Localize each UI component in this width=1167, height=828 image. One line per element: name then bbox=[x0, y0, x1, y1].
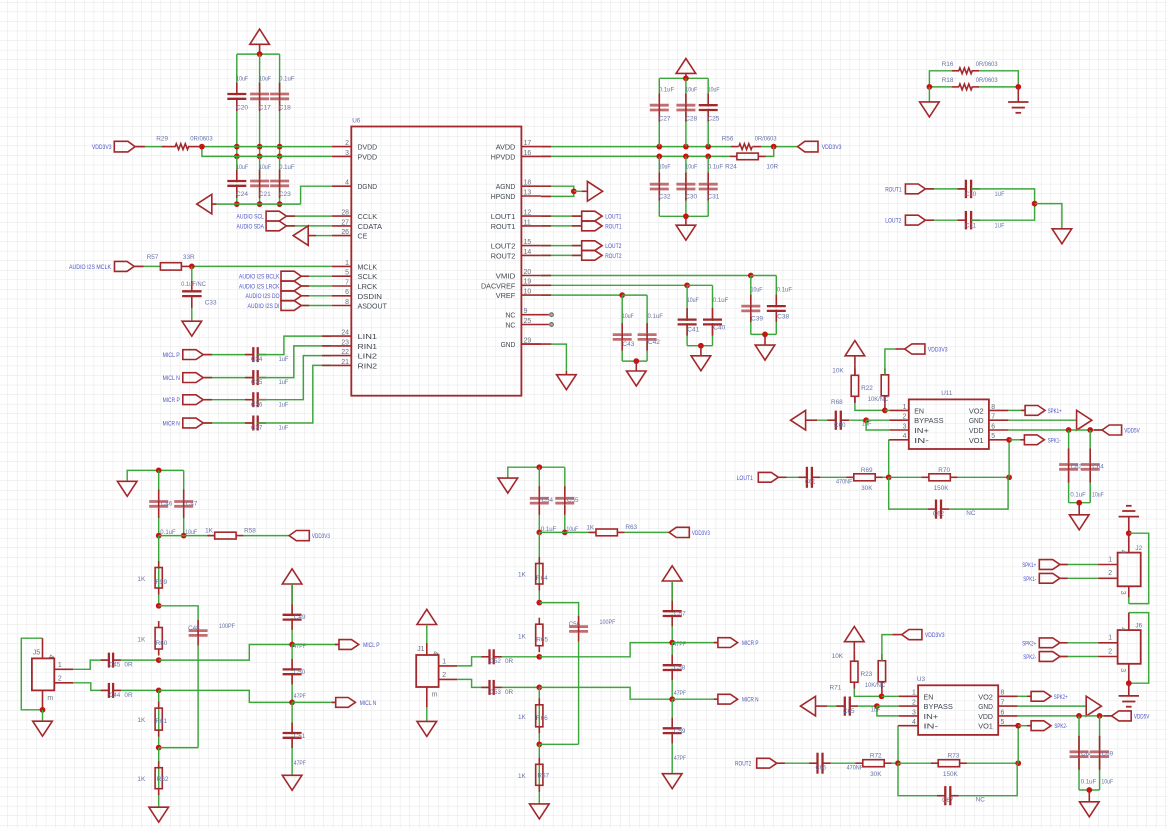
capacitor C58 bbox=[663, 655, 686, 681]
op-amp U11 bbox=[909, 390, 989, 449]
svg-text:4: 4 bbox=[1119, 627, 1126, 631]
svg-text:CE: CE bbox=[358, 232, 368, 241]
svg-text:1UF: 1UF bbox=[995, 191, 1005, 198]
capacitor C23 bbox=[270, 164, 294, 198]
resistor R65 bbox=[518, 618, 548, 653]
svg-text:MICL N: MICL N bbox=[163, 375, 181, 382]
svg-text:MICR N: MICR N bbox=[742, 697, 759, 704]
wire bbox=[236, 156, 238, 204]
svg-text:4: 4 bbox=[903, 433, 907, 440]
svg-text:6: 6 bbox=[1001, 709, 1005, 716]
node junction bbox=[156, 657, 162, 663]
resistor R69 bbox=[847, 467, 883, 492]
wire bbox=[764, 334, 766, 345]
pin 3 IN+ bbox=[889, 423, 929, 435]
svg-text:1: 1 bbox=[1108, 556, 1112, 563]
svg-text:NC: NC bbox=[506, 311, 516, 320]
svg-text:0.1uF: 0.1uF bbox=[777, 287, 792, 294]
svg-text:LIN1: LIN1 bbox=[358, 332, 378, 341]
svg-text:ROUT1: ROUT1 bbox=[491, 222, 516, 231]
node junction bbox=[748, 273, 754, 279]
capacitor C18 bbox=[270, 76, 294, 112]
capacitor C56 bbox=[569, 616, 616, 642]
wire bbox=[1018, 695, 1031, 697]
svg-text:LOUT1: LOUT1 bbox=[737, 475, 754, 482]
svg-text:0R/0603: 0R/0603 bbox=[190, 135, 213, 142]
capacitor C35 bbox=[245, 370, 288, 386]
svg-text:R23: R23 bbox=[861, 671, 873, 678]
svg-text:DVDD: DVDD bbox=[358, 143, 378, 152]
svg-text:R16: R16 bbox=[942, 61, 954, 68]
node junction bbox=[874, 703, 880, 709]
pin 1 bbox=[1098, 556, 1118, 564]
wire bbox=[1060, 577, 1098, 579]
pin 1 bbox=[54, 662, 73, 669]
pin 3 IN+ bbox=[899, 709, 939, 721]
wire bbox=[541, 215, 582, 217]
capacitor C49 bbox=[283, 604, 306, 630]
svg-text:MICR P: MICR P bbox=[163, 397, 180, 404]
power VCC symbol bbox=[845, 627, 865, 651]
wire bbox=[1069, 502, 1091, 504]
wire bbox=[897, 725, 900, 727]
svg-text:9: 9 bbox=[524, 308, 528, 315]
net flag VDD3V3 bbox=[905, 344, 948, 354]
net flag AUDIO_I2S_DO bbox=[246, 291, 302, 301]
svg-text:R60: R60 bbox=[156, 640, 168, 647]
svg-text:C10: C10 bbox=[965, 191, 977, 198]
power VCC symbol bbox=[417, 609, 437, 624]
capacitor C54 bbox=[530, 486, 557, 533]
node junction bbox=[669, 640, 675, 646]
resistor R61 bbox=[137, 702, 167, 737]
value label 47PF bbox=[294, 643, 306, 650]
svg-text:NC: NC bbox=[976, 797, 986, 804]
svg-text:C61: C61 bbox=[805, 479, 816, 486]
svg-text:10uF: 10uF bbox=[236, 76, 248, 83]
capacitor C50 bbox=[283, 659, 306, 685]
svg-text:1K: 1K bbox=[586, 524, 595, 531]
svg-text:GND: GND bbox=[978, 702, 993, 711]
svg-text:0.1uF: 0.1uF bbox=[279, 164, 294, 171]
net flag AUDIO_I2S_BCLK bbox=[239, 271, 301, 281]
ground bbox=[755, 345, 775, 360]
svg-text:12: 12 bbox=[524, 210, 532, 217]
svg-text:4: 4 bbox=[912, 719, 916, 726]
svg-text:0.1uF: 0.1uF bbox=[713, 297, 728, 304]
svg-text:J2: J2 bbox=[1135, 545, 1142, 552]
svg-text:VO2: VO2 bbox=[978, 692, 993, 701]
ground bbox=[676, 225, 696, 240]
node junction bbox=[536, 530, 567, 536]
svg-text:GND: GND bbox=[969, 416, 984, 425]
svg-text:10uF: 10uF bbox=[259, 76, 271, 83]
svg-text:47PF: 47PF bbox=[674, 755, 686, 762]
svg-text:47PF: 47PF bbox=[294, 760, 306, 767]
earth ground bbox=[1119, 506, 1139, 517]
svg-text:AUDIO SDA: AUDIO SDA bbox=[237, 223, 265, 230]
net flag MICL P bbox=[339, 640, 380, 650]
svg-text:5: 5 bbox=[1001, 719, 1005, 726]
power VCC symbol bbox=[662, 566, 682, 601]
capacitor C28 bbox=[676, 86, 697, 122]
net flag ROUT2 bbox=[582, 251, 622, 261]
wire bbox=[877, 705, 899, 707]
wire bbox=[502, 656, 539, 658]
svg-text:VREF: VREF bbox=[496, 291, 516, 300]
svg-text:LOUT1: LOUT1 bbox=[605, 214, 622, 221]
wire bbox=[1078, 716, 1080, 790]
wire bbox=[258, 356, 332, 400]
resistor R63 bbox=[586, 524, 637, 536]
svg-text:C55: C55 bbox=[567, 497, 579, 504]
svg-text:C59: C59 bbox=[674, 728, 686, 735]
wire bbox=[858, 705, 877, 707]
svg-text:AGND: AGND bbox=[496, 182, 516, 191]
pin 11 ROUT1 bbox=[491, 219, 541, 231]
wire bbox=[892, 634, 901, 636]
net flag AUDIO_SCL bbox=[237, 211, 287, 221]
wire bbox=[820, 476, 854, 478]
wire bbox=[971, 204, 1035, 221]
svg-text:1: 1 bbox=[345, 260, 349, 267]
pin 22 LIN2 bbox=[332, 349, 377, 361]
svg-text:m: m bbox=[47, 695, 53, 702]
svg-text:10K: 10K bbox=[832, 367, 844, 374]
svg-text:C17: C17 bbox=[259, 105, 271, 112]
wire bbox=[622, 294, 647, 296]
node junction bbox=[234, 144, 240, 159]
pin 29 GND bbox=[501, 338, 541, 350]
wire bbox=[291, 702, 293, 775]
svg-text:IN+: IN+ bbox=[914, 426, 929, 435]
svg-text:14: 14 bbox=[524, 249, 532, 256]
svg-text:C35: C35 bbox=[251, 379, 263, 386]
svg-text:7: 7 bbox=[345, 279, 349, 286]
svg-text:R63: R63 bbox=[625, 524, 637, 531]
ground bbox=[182, 321, 202, 336]
svg-text:C45: C45 bbox=[109, 662, 120, 669]
ground bbox=[1080, 802, 1100, 817]
svg-text:100PF: 100PF bbox=[600, 619, 616, 626]
svg-text:C28: C28 bbox=[685, 116, 697, 123]
wire bbox=[882, 695, 899, 697]
svg-text:MCLK: MCLK bbox=[358, 262, 378, 271]
svg-text:8: 8 bbox=[991, 404, 995, 411]
svg-text:2: 2 bbox=[442, 672, 446, 679]
svg-text:R59: R59 bbox=[155, 579, 167, 586]
pin 21 RIN2 bbox=[332, 359, 377, 371]
svg-text:VO1: VO1 bbox=[978, 722, 993, 731]
svg-text:RIN1: RIN1 bbox=[358, 342, 378, 351]
wire bbox=[1089, 430, 1091, 503]
net flag SPK2- bbox=[1023, 652, 1060, 662]
svg-text:0.1uF: 0.1uF bbox=[1070, 491, 1085, 498]
svg-text:ROUT2: ROUT2 bbox=[735, 761, 752, 768]
resistor R57 bbox=[147, 254, 195, 270]
net flag AUDIO_I2S_MCLK bbox=[69, 261, 134, 271]
capacitor C45 bbox=[101, 653, 133, 669]
wire bbox=[258, 346, 332, 378]
svg-text:30K: 30K bbox=[870, 771, 882, 778]
svg-text:EN: EN bbox=[914, 406, 924, 415]
svg-text:1uF: 1uF bbox=[279, 379, 289, 386]
capacitor C40 bbox=[703, 297, 728, 336]
wire bbox=[286, 225, 331, 227]
capacitor C68 bbox=[1070, 736, 1097, 786]
svg-text:LOUT2: LOUT2 bbox=[885, 218, 902, 225]
node junction bbox=[886, 474, 892, 480]
wire bbox=[134, 265, 160, 267]
wire bbox=[888, 440, 890, 478]
svg-text:10uF: 10uF bbox=[687, 297, 699, 304]
ground (right arrow) bbox=[587, 181, 602, 201]
svg-text:RIN2: RIN2 bbox=[358, 361, 378, 370]
node junction bbox=[895, 760, 901, 766]
capacitor C48 bbox=[188, 620, 235, 646]
wire bbox=[203, 377, 253, 379]
wire bbox=[685, 78, 687, 146]
svg-text:C39: C39 bbox=[751, 316, 763, 323]
svg-text:R72: R72 bbox=[870, 753, 882, 760]
svg-text:CDATA: CDATA bbox=[358, 222, 383, 231]
capacitor C37 bbox=[245, 416, 288, 432]
node junction bbox=[277, 144, 283, 159]
wire HPGND bbox=[541, 191, 574, 196]
svg-text:3: 3 bbox=[912, 709, 916, 716]
svg-text:SPK1+: SPK1+ bbox=[1022, 562, 1036, 569]
capacitor C24 bbox=[227, 164, 248, 198]
wire bbox=[885, 349, 896, 410]
wire bbox=[1099, 716, 1101, 790]
ground (CE arrow) bbox=[293, 226, 332, 246]
svg-text:C66: C66 bbox=[816, 765, 827, 772]
net flag MICR N bbox=[718, 694, 759, 704]
wire bbox=[766, 147, 774, 157]
svg-text:6: 6 bbox=[345, 289, 349, 296]
capacitor C66 bbox=[809, 753, 863, 774]
net flag MICL N bbox=[336, 698, 377, 708]
svg-text:C11: C11 bbox=[965, 223, 977, 230]
svg-text:R58: R58 bbox=[244, 527, 256, 534]
capacitor C63 bbox=[1059, 449, 1086, 499]
wire bbox=[877, 706, 899, 716]
svg-text:C67: C67 bbox=[942, 797, 954, 804]
wire bbox=[971, 189, 1035, 204]
svg-text:8: 8 bbox=[345, 299, 349, 306]
svg-text:IN-: IN- bbox=[914, 436, 929, 445]
resistor 10K/NC bbox=[868, 368, 889, 403]
resistor R16 bbox=[942, 61, 998, 74]
svg-text:U3: U3 bbox=[917, 676, 926, 683]
node junction bbox=[619, 292, 625, 298]
pin 2 bbox=[1098, 648, 1118, 656]
wire bbox=[1060, 564, 1098, 566]
svg-text:26: 26 bbox=[341, 229, 349, 236]
ground bbox=[33, 721, 53, 736]
pin 2 bbox=[439, 672, 458, 679]
svg-text:C52: C52 bbox=[490, 658, 501, 665]
svg-text:C62: C62 bbox=[933, 510, 945, 517]
wire ground rail bbox=[622, 360, 647, 362]
svg-text:SPK1+: SPK1+ bbox=[1048, 408, 1062, 415]
node junction bbox=[257, 144, 263, 159]
pin 2 BYPASS bbox=[889, 414, 943, 426]
svg-text:VDD3V3: VDD3V3 bbox=[925, 632, 945, 639]
capacitor C61 bbox=[799, 467, 853, 488]
node junction bbox=[879, 693, 885, 699]
wire bbox=[1035, 204, 1062, 229]
node junction bbox=[536, 741, 542, 747]
power VCC symbol bbox=[845, 341, 865, 365]
wire bbox=[564, 467, 566, 532]
svg-text:0R/0603: 0R/0603 bbox=[755, 136, 777, 143]
resistor R66 bbox=[518, 698, 548, 733]
svg-text:R68: R68 bbox=[831, 399, 843, 406]
wire bbox=[672, 642, 718, 644]
svg-text:24: 24 bbox=[341, 330, 349, 337]
svg-text:C56: C56 bbox=[569, 621, 581, 628]
wire bbox=[279, 54, 281, 156]
svg-text:R65: R65 bbox=[536, 637, 548, 644]
svg-text:1: 1 bbox=[912, 690, 916, 697]
node junction bbox=[289, 700, 295, 706]
power VCC symbol bbox=[282, 569, 302, 605]
pin 8 VO2 bbox=[969, 404, 1009, 416]
net flag MICR N bbox=[163, 418, 204, 428]
net flag VDD3V3 bbox=[902, 630, 945, 640]
wire bbox=[621, 295, 623, 361]
svg-text:R64: R64 bbox=[536, 575, 548, 582]
svg-text:VDD3V3: VDD3V3 bbox=[312, 533, 330, 540]
svg-text:C51: C51 bbox=[294, 733, 306, 740]
wire bbox=[1088, 790, 1090, 802]
net flag SPK1- bbox=[1023, 573, 1060, 583]
svg-text:VDD5V: VDD5V bbox=[1134, 713, 1150, 720]
net flag VDD5V bbox=[1102, 425, 1140, 435]
wire bbox=[889, 476, 929, 478]
svg-text:1uF: 1uF bbox=[279, 401, 289, 408]
pin 6 VDD bbox=[969, 423, 1009, 435]
wire bbox=[928, 87, 930, 102]
pin 4 DGND bbox=[332, 180, 377, 192]
net flag AUDIO_I2S_DI bbox=[248, 301, 302, 311]
pin 5 VO1 bbox=[969, 433, 1009, 445]
wire bbox=[426, 625, 428, 656]
svg-text:VO2: VO2 bbox=[969, 406, 984, 415]
svg-text:0.1uF: 0.1uF bbox=[279, 76, 294, 83]
wire bbox=[541, 225, 582, 227]
value label 47PF bbox=[674, 690, 686, 697]
capacitor C46 bbox=[149, 489, 176, 536]
wire bbox=[301, 295, 332, 297]
resistor R62 bbox=[137, 761, 169, 795]
capacitor C17 bbox=[250, 76, 271, 112]
wire AVDD rail bbox=[541, 146, 731, 148]
svg-text:C41: C41 bbox=[687, 326, 699, 333]
wire AGND bbox=[541, 186, 574, 191]
wire top rail bbox=[659, 77, 708, 79]
pin 7 LRCK bbox=[332, 279, 377, 291]
wire bbox=[1060, 656, 1098, 658]
svg-text:C40: C40 bbox=[713, 325, 725, 332]
value label 47PF bbox=[674, 641, 686, 648]
svg-text:3: 3 bbox=[903, 423, 907, 430]
node junction bbox=[189, 264, 195, 270]
svg-text:MICR P: MICR P bbox=[742, 640, 759, 647]
resistor R73 bbox=[931, 753, 967, 778]
svg-text:BYPASS: BYPASS bbox=[924, 702, 953, 711]
svg-text:C46: C46 bbox=[161, 500, 173, 507]
svg-text:10R: 10R bbox=[766, 164, 778, 171]
resistor R72 bbox=[856, 753, 892, 778]
wire bbox=[203, 354, 253, 356]
connector J5 bbox=[32, 650, 54, 703]
svg-text:VMID: VMID bbox=[496, 272, 516, 281]
wire bbox=[929, 86, 952, 88]
svg-text:1: 1 bbox=[442, 659, 446, 666]
wire bbox=[1009, 439, 1024, 441]
svg-text:3: 3 bbox=[1119, 591, 1126, 595]
ground bbox=[1052, 229, 1072, 244]
svg-text:100PF: 100PF bbox=[219, 623, 235, 630]
svg-text:1K: 1K bbox=[518, 773, 527, 780]
node junction bbox=[536, 654, 542, 660]
ground bbox=[149, 807, 169, 822]
svg-text:ROUT1: ROUT1 bbox=[605, 223, 622, 230]
svg-text:C53: C53 bbox=[490, 689, 501, 696]
net flag AUDIO_I2S_LRCK bbox=[239, 281, 301, 291]
svg-text:C43: C43 bbox=[622, 341, 634, 348]
wire bbox=[158, 690, 160, 747]
wire top rail bbox=[237, 53, 280, 55]
wire bbox=[671, 699, 673, 774]
wire bbox=[73, 683, 109, 691]
no-connect pin 9 bbox=[550, 313, 554, 317]
svg-text:ROUT2: ROUT2 bbox=[605, 253, 622, 260]
wire bbox=[1129, 613, 1149, 684]
wire bbox=[292, 644, 339, 646]
wire bbox=[646, 295, 648, 361]
wire bbox=[672, 698, 718, 700]
resistor R58 bbox=[205, 527, 256, 539]
wire bbox=[889, 477, 928, 509]
net flag MICL N bbox=[163, 373, 204, 383]
svg-text:C31: C31 bbox=[707, 194, 719, 201]
wire bbox=[658, 156, 660, 216]
pin 8 VO2 bbox=[978, 690, 1018, 702]
net flag LOUT2 bbox=[582, 241, 622, 251]
svg-text:AUDIO I2S BCLK: AUDIO I2S BCLK bbox=[239, 274, 280, 281]
svg-text:NC: NC bbox=[506, 321, 516, 330]
wire bbox=[712, 285, 714, 345]
wire bbox=[1008, 440, 1010, 478]
svg-text:1: 1 bbox=[58, 662, 62, 669]
svg-text:C50: C50 bbox=[294, 669, 306, 676]
svg-text:C32: C32 bbox=[659, 194, 671, 201]
svg-text:0R: 0R bbox=[124, 692, 133, 699]
pin 4 IN- bbox=[889, 433, 929, 445]
wire bbox=[192, 265, 332, 267]
ground bbox=[691, 356, 711, 371]
capacitor C52 bbox=[481, 649, 513, 665]
svg-text:1: 1 bbox=[1108, 635, 1112, 642]
svg-text:U11: U11 bbox=[941, 390, 953, 397]
svg-text:R66: R66 bbox=[536, 715, 548, 722]
net flag SPK2+ bbox=[1022, 638, 1060, 648]
resistor R24 bbox=[725, 153, 778, 171]
ground (left arrow) bbox=[197, 194, 217, 214]
